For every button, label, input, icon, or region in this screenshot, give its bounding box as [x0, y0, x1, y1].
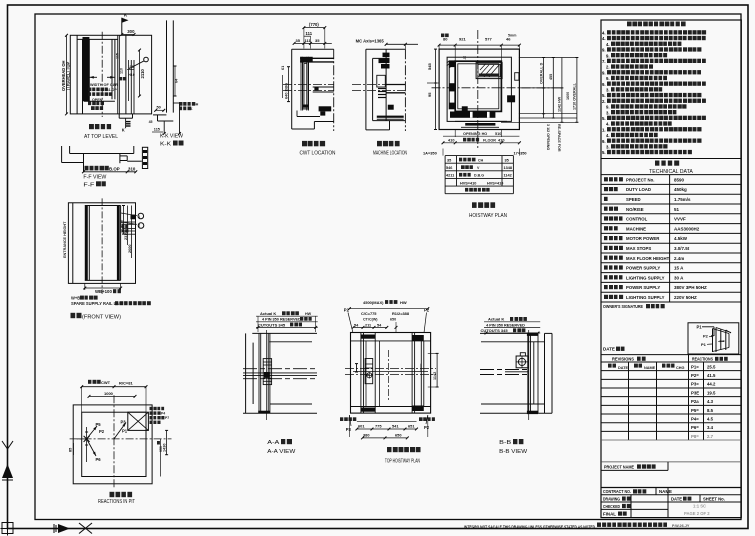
- dim ladder right of door: [131, 215, 136, 220]
- K-K bottom step: [153, 114, 166, 116]
- svg-text:C/C=775: C/C=775: [361, 311, 377, 316]
- svg-text:35: 35: [315, 38, 320, 43]
- svg-text:4.: 4.: [606, 133, 610, 138]
- svg-text:HVS=410: HVS=410: [460, 181, 476, 185]
- svg-text:SHEET No.: SHEET No.: [703, 496, 725, 501]
- svg-text:44.2: 44.2: [707, 382, 716, 387]
- svg-text:4.: 4.: [606, 42, 610, 47]
- fold mark: solid arrow on bottom border: [58, 524, 70, 533]
- svg-text:CHECKED: CHECKED: [603, 504, 620, 509]
- caption FRONT VIEW: [71, 313, 82, 318]
- view CWT LOCATION: [291, 49, 293, 129]
- svg-text:9.: 9.: [602, 48, 606, 53]
- machine inner frame: [372, 58, 374, 120]
- left dims hoistway: [435, 49, 437, 129]
- THP right guide: [411, 333, 413, 414]
- svg-text:OVERALL D: OVERALL D: [539, 62, 543, 84]
- title block outline: [601, 20, 741, 518]
- svg-text:P4: P4: [161, 412, 165, 416]
- B-B rails: [480, 369, 528, 371]
- bottom blocks cwt: [319, 106, 332, 111]
- view F-F: door sill section: [61, 146, 63, 163]
- svg-text:7.: 7.: [602, 59, 606, 64]
- THP left guide: [360, 333, 362, 414]
- svg-text:F-F: F-F: [83, 182, 95, 188]
- svg-text:P2=: P2=: [691, 373, 699, 378]
- svg-text:3 1/2 OPENING: 3 1/2 OPENING: [546, 124, 550, 150]
- svg-text:4.3: 4.3: [707, 399, 714, 404]
- car centreline: [101, 32, 103, 117]
- svg-text:9.: 9.: [606, 105, 610, 110]
- svg-text:A-A: A-A: [267, 440, 279, 446]
- right note block: [179, 102, 195, 106]
- svg-text:MACHINE: MACHINE: [626, 226, 646, 231]
- svg-text:8.5: 8.5: [707, 408, 714, 413]
- svg-text:A-A VIEW: A-A VIEW: [267, 449, 296, 455]
- technical data table: [601, 174, 741, 176]
- svg-text:(770): (770): [309, 22, 319, 27]
- svg-text:OH: OH: [193, 103, 199, 107]
- svg-text:P2: P2: [99, 429, 105, 434]
- svg-text:651: 651: [408, 423, 415, 428]
- beams: [386, 84, 405, 86]
- A-A wall: [245, 333, 247, 413]
- svg-text:CUTOUTS 345: CUTOUTS 345: [481, 328, 509, 333]
- svg-text:25.5: 25.5: [707, 364, 716, 369]
- svg-text:RE-SPACE FOR: RE-SPACE FOR: [557, 124, 561, 152]
- svg-text:95: 95: [427, 92, 432, 97]
- svg-text:OPENING HO: OPENING HO: [463, 132, 487, 136]
- svg-text:1:1 SC: 1:1 SC: [693, 504, 706, 509]
- svg-text:P1: P1: [122, 429, 128, 434]
- reaction sketch box: [688, 323, 739, 354]
- svg-text:NAME: NAME: [644, 366, 656, 370]
- cwt rail and frame: [300, 57, 302, 111]
- svg-text:211: 211: [365, 323, 371, 327]
- svg-text:2110: 2110: [140, 69, 145, 79]
- svg-text:P7: P7: [165, 416, 169, 420]
- svg-text:115: 115: [154, 128, 160, 132]
- svg-text:AT TOP LEVEL: AT TOP LEVEL: [84, 134, 119, 140]
- notes heading: [627, 22, 686, 27]
- svg-text:650: 650: [395, 433, 402, 438]
- svg-text:MAX STOPS: MAX STOPS: [626, 246, 651, 251]
- svg-text:45: 45: [149, 120, 153, 124]
- centerline: [101, 198, 103, 294]
- svg-text:35: 35: [505, 159, 509, 163]
- data row PROJECT No.: [604, 177, 623, 181]
- svg-text:4.: 4.: [602, 36, 606, 41]
- svg-text:OPEN: OPEN: [92, 98, 103, 102]
- svg-text:455: 455: [549, 74, 553, 80]
- svg-text:P3=: P3=: [691, 382, 699, 387]
- svg-text:R1/2=388: R1/2=388: [392, 311, 410, 316]
- svg-text:PROJECT NAME: PROJECT NAME: [604, 464, 634, 469]
- svg-text:41.5: 41.5: [707, 373, 716, 378]
- svg-text:MAX FLOOR HEIGHT: MAX FLOOR HEIGHT: [626, 256, 670, 261]
- svg-text:B1.OP: B1.OP: [106, 88, 117, 92]
- svg-text:2310: 2310: [124, 232, 128, 240]
- svg-text:P3E: P3E: [691, 390, 699, 395]
- svg-text:P2: P2: [424, 425, 430, 430]
- svg-text:WB+100: WB+100: [95, 289, 112, 294]
- svg-text:SPEED: SPEED: [626, 197, 641, 202]
- svg-text:35: 35: [447, 159, 451, 163]
- svg-text:9.: 9.: [602, 70, 606, 75]
- svg-text:1000: 1000: [104, 391, 114, 396]
- svg-text:ENTRANCE HEIGHT: ENTRANCE HEIGHT: [63, 221, 67, 258]
- flag K bottom: [125, 118, 127, 128]
- svg-text:MACHINE LOCATION: MACHINE LOCATION: [373, 151, 407, 157]
- svg-text:1A=350: 1A=350: [423, 151, 437, 156]
- svg-text:601: 601: [358, 423, 365, 428]
- svg-text:CUTOUTS 345: CUTOUTS 345: [258, 322, 286, 327]
- view HOISTWAY PLAN: [439, 49, 519, 129]
- caption REACTIONS IN PIT: [110, 492, 133, 497]
- svg-text:CONTROL: CONTROL: [626, 217, 648, 222]
- circled marks: [138, 213, 144, 219]
- svg-text:921: 921: [459, 37, 466, 42]
- svg-text:4211: 4211: [446, 174, 454, 178]
- data row MAX FLOOR HEIGHT: [604, 256, 623, 260]
- counterweight column left: [449, 61, 455, 109]
- THP bottom dims: [348, 415, 350, 437]
- left small dim 85: [77, 438, 87, 440]
- hatched jamb block: [142, 147, 147, 168]
- svg-text:CH: CH: [478, 159, 484, 163]
- svg-text:P8=: P8=: [691, 434, 699, 439]
- svg-text:K-K: K-K: [160, 142, 171, 148]
- data row DUTY LOAD: [604, 187, 618, 191]
- data row POWER SUPPLY: [604, 265, 623, 269]
- svg-text:1142: 1142: [504, 174, 512, 178]
- svg-text:35: 35: [296, 38, 301, 43]
- svg-text:2.7: 2.7: [707, 434, 714, 439]
- svg-text:4500(MAX): 4500(MAX): [363, 300, 384, 305]
- svg-text:8590: 8590: [674, 177, 685, 182]
- svg-text:DATE: DATE: [603, 347, 615, 352]
- svg-text:450kg: 450kg: [674, 187, 687, 192]
- svg-text:FLOOR: FLOOR: [483, 139, 496, 143]
- svg-text:110: 110: [128, 65, 134, 69]
- svg-text:W+B: W+B: [71, 295, 80, 300]
- centerlines: [113, 395, 115, 488]
- svg-text:WIDTH OF CAR: WIDTH OF CAR: [90, 83, 118, 87]
- svg-text:DATE: DATE: [671, 496, 682, 501]
- revisions table columns: [688, 355, 690, 440]
- F-F labels: [85, 166, 109, 171]
- svg-text:220V 50HZ: 220V 50HZ: [674, 295, 697, 300]
- data row MACHINE: [604, 226, 618, 230]
- technical data heading: [655, 161, 679, 166]
- svg-text:P3: P3: [346, 427, 352, 432]
- svg-text:5.: 5.: [602, 150, 606, 155]
- svg-text:P2: P2: [344, 308, 350, 313]
- svg-text:PROJECT No.: PROJECT No.: [626, 177, 654, 182]
- hoistway data table: [445, 155, 513, 157]
- left point with arrows: [84, 436, 90, 442]
- svg-text:410: 410: [448, 138, 455, 143]
- top beams double lines: [300, 57, 334, 59]
- svg-text:HVS=410: HVS=410: [487, 181, 503, 185]
- svg-text:4 PIN 350 RESERVED: 4 PIN 350 RESERVED: [486, 323, 525, 327]
- svg-text:P2a: P2a: [691, 399, 699, 404]
- THP centre lines: [345, 368, 436, 370]
- svg-text:LIGHTING SUPPLY: LIGHTING SUPPLY: [626, 295, 665, 300]
- svg-text:3.: 3.: [606, 88, 610, 93]
- svg-text:9.: 9.: [606, 76, 610, 81]
- svg-text:HW: HW: [305, 312, 312, 316]
- svg-text:CWT LOCATION: CWT LOCATION: [300, 151, 336, 157]
- svg-text:17=350: 17=350: [514, 151, 527, 156]
- svg-text:1710 OVERALL: 1710 OVERALL: [573, 82, 577, 110]
- svg-text:NAME: NAME: [659, 489, 672, 494]
- svg-text:577: 577: [485, 37, 492, 42]
- svg-text:VVVF: VVVF: [674, 217, 686, 222]
- car door dark bar: [450, 112, 495, 118]
- door right edge: [117, 206, 120, 281]
- svg-text:K-K VIEW: K-K VIEW: [160, 134, 183, 140]
- svg-text:PAGE 2 OF 2: PAGE 2 OF 2: [684, 511, 710, 516]
- svg-text:2.: 2.: [602, 99, 606, 104]
- svg-text:AAS3000H2: AAS3000H2: [674, 226, 700, 231]
- svg-text:1: 1: [138, 215, 140, 219]
- right dim pit: [160, 439, 162, 477]
- pulley circle: [144, 57, 149, 62]
- svg-text:P4=: P4=: [691, 416, 699, 421]
- svg-text:9.: 9.: [602, 82, 606, 87]
- svg-text:650: 650: [390, 318, 396, 322]
- fold mark: X on bottom border: [79, 523, 92, 534]
- svg-text:P1: P1: [701, 342, 707, 347]
- svg-text:3.4: 3.4: [707, 425, 714, 430]
- step below: [118, 114, 120, 118]
- car roof dark panel: [83, 37, 90, 101]
- data row LIGHTING SUPPLY: [604, 275, 623, 279]
- svg-text:1430: 1430: [163, 444, 167, 452]
- section flag K top: [121, 18, 123, 36]
- drawn/checked/final rows: [601, 501, 741, 503]
- svg-text:4.: 4.: [606, 122, 610, 127]
- corner hatch top-left: [447, 61, 452, 66]
- car walls: [455, 61, 501, 111]
- svg-text:REACTIONS IN PIT: REACTIONS IN PIT: [98, 499, 135, 505]
- data row LIGHTING SUPPLY: [604, 295, 623, 299]
- svg-text:3.0/7.5t: 3.0/7.5t: [674, 246, 690, 251]
- A-A rails: [243, 368, 317, 370]
- svg-text:DRAWING: DRAWING: [603, 496, 620, 501]
- project name bar: [601, 461, 741, 463]
- svg-text:380V 3PH 50HZ: 380V 3PH 50HZ: [674, 285, 707, 290]
- svg-text:R/C=81: R/C=81: [119, 381, 133, 386]
- THP main rect: [351, 333, 431, 414]
- svg-text:1142 HW: 1142 HW: [558, 96, 562, 112]
- view MACHINE LOCATION: [365, 49, 367, 130]
- svg-text:1142: 1142: [433, 372, 437, 380]
- right shaft lines: [125, 35, 127, 114]
- svg-text:950: 950: [159, 446, 163, 452]
- caption MACHINE LOCATION: [377, 141, 400, 146]
- svg-text:3.: 3.: [606, 110, 610, 115]
- svg-text:19.5: 19.5: [707, 390, 716, 395]
- THP right dim: [436, 353, 438, 387]
- svg-text:110: 110: [120, 68, 124, 74]
- svg-text:1348: 1348: [504, 166, 512, 170]
- svg-text:B-B VIEW: B-B VIEW: [499, 449, 528, 455]
- svg-text:CONTRACT NO.: CONTRACT NO.: [603, 489, 631, 494]
- svg-text:30 A: 30 A: [674, 275, 684, 280]
- svg-text:510: 510: [495, 132, 501, 136]
- data row CONTROL: [604, 216, 623, 220]
- svg-text:D.B.G: D.B.G: [474, 174, 484, 178]
- 3d box sketch: [712, 329, 714, 353]
- view REACTIONS IN PIT: pit plan: [73, 405, 152, 484]
- svg-text:P.W.26.JY: P.W.26.JY: [672, 524, 690, 528]
- svg-text:4.5kW: 4.5kW: [674, 236, 688, 241]
- subheader texts: [608, 364, 616, 368]
- svg-text:NO/RISE: NO/RISE: [626, 207, 644, 212]
- data row MAX STOPS: [604, 246, 623, 250]
- svg-text:3.: 3.: [606, 145, 610, 150]
- svg-text:4.: 4.: [602, 31, 606, 36]
- svg-text:REVISIONS: REVISIONS: [612, 357, 634, 362]
- svg-text:51: 51: [674, 207, 680, 212]
- data row POWER SUPPLY: [604, 285, 623, 289]
- svg-text:REACTIONS: REACTIONS: [692, 357, 713, 362]
- data row SPEED: [604, 197, 608, 201]
- svg-text:300: 300: [127, 29, 135, 34]
- svg-text:LIGHTING SUPPLY: LIGHTING SUPPLY: [626, 275, 665, 280]
- B-B wall: [480, 332, 538, 334]
- svg-text:B.OP: B.OP: [109, 166, 120, 171]
- svg-text:HW: HW: [400, 300, 407, 305]
- svg-text:P5: P5: [96, 422, 102, 427]
- svg-text:2: 2: [138, 223, 140, 227]
- svg-text:K: K: [122, 128, 125, 133]
- svg-text:2600: 2600: [128, 245, 132, 253]
- svg-text:5.: 5.: [602, 93, 606, 98]
- svg-text:111: 111: [306, 31, 313, 36]
- view FRONT: landing door elevation: [68, 203, 135, 284]
- left dim cwt: [288, 67, 290, 102]
- fold mark: corner square with cross bottom-left: [2, 523, 13, 534]
- svg-text:9.: 9.: [602, 139, 606, 144]
- B-B crossed box: [516, 356, 528, 368]
- svg-text:INTEGRO NOT SACALE THIS DRAWIN: INTEGRO NOT SACALE THIS DRAWING,UNLESS O…: [464, 524, 595, 529]
- svg-text:P6: P6: [96, 457, 102, 462]
- svg-text:DATE: DATE: [618, 366, 629, 370]
- arrows at car centre: [114, 423, 126, 439]
- rail bracket arm: [313, 86, 334, 88]
- svg-text:310: 310: [128, 167, 136, 172]
- svg-text:TOP HOISTWAY PLAN: TOP HOISTWAY PLAN: [385, 459, 420, 465]
- svg-text:POWER SUPPLY: POWER SUPPLY: [626, 266, 660, 271]
- machine box hatched: [476, 63, 502, 79]
- svg-text:(FRONT VIEW): (FRONT VIEW): [82, 315, 121, 321]
- svg-text:15 A: 15 A: [674, 266, 684, 271]
- svg-text:9.: 9.: [606, 53, 610, 58]
- bottom blocks machine: [388, 105, 394, 110]
- svg-text:4.5: 4.5: [707, 416, 714, 421]
- svg-text:P6=: P6=: [691, 425, 699, 430]
- revisions / reactions headers: [601, 354, 741, 356]
- machine parts: [385, 49, 387, 120]
- fold mark: solid triangle on left border: [2, 464, 13, 478]
- caption HOISTWAY PLAN: [472, 202, 495, 208]
- svg-text:HOISTWAY PLAN: HOISTWAY PLAN: [469, 213, 507, 219]
- landing door bars: [465, 123, 495, 126]
- svg-text:P1: P1: [697, 325, 703, 330]
- svg-text:4 PIN 350 RESERVED: 4 PIN 350 RESERVED: [262, 318, 301, 322]
- fold mark: Y on left border: [2, 441, 8, 449]
- svg-text:1|: 1|: [463, 56, 466, 60]
- svg-text:Actual K: Actual K: [260, 311, 276, 316]
- svg-text:POWER SUPPLY: POWER SUPPLY: [626, 285, 660, 290]
- svg-text:5.: 5.: [602, 116, 606, 121]
- svg-text:P2: P2: [424, 308, 430, 313]
- data row NO/RISE: [604, 207, 618, 211]
- svg-text:545: 545: [427, 63, 432, 70]
- svg-text:F-F VIEW: F-F VIEW: [83, 175, 106, 181]
- svg-text:775: 775: [375, 423, 382, 428]
- svg-text:1600: 1600: [566, 92, 570, 100]
- svg-text:B-B: B-B: [499, 440, 511, 446]
- A-A guide assembly: [258, 333, 260, 413]
- view AT TOP LEVEL: hoistway top section: [70, 35, 151, 114]
- svg-text:546: 546: [446, 166, 452, 170]
- caption AT TOP LEVEL: [89, 124, 111, 129]
- svg-text:1.75m/s: 1.75m/s: [674, 197, 691, 202]
- caption TOP HOISTWAY PLAN: [387, 447, 421, 452]
- B-B guide assembly: [527, 333, 529, 415]
- top dim lines pit: [82, 386, 146, 388]
- small box bottom-left in car: [462, 106, 468, 111]
- svg-text:DUTY LOAD: DUTY LOAD: [626, 187, 651, 192]
- data row MOTOR POWER: [604, 236, 623, 240]
- svg-text:Actual K: Actual K: [488, 317, 504, 322]
- contract row: [601, 487, 741, 489]
- svg-text:H10: H10: [128, 73, 135, 77]
- svg-text:P5=: P5=: [691, 408, 699, 413]
- svg-text:P1=: P1=: [691, 364, 699, 369]
- svg-text:CWT: CWT: [101, 380, 111, 385]
- svg-text:640 DBG: 640 DBG: [283, 83, 288, 99]
- svg-text:P3: P3: [121, 420, 127, 425]
- bottom width dim: [85, 287, 121, 289]
- svg-text:MC Axis=1365: MC Axis=1365: [356, 38, 385, 43]
- svg-text:OWNER'S SIGNATURE: OWNER'S SIGNATURE: [603, 304, 643, 309]
- svg-text:FINAL: FINAL: [603, 511, 616, 516]
- svg-text:5mm: 5mm: [508, 34, 516, 38]
- right dim stack: [123, 206, 125, 235]
- door open arrows: [90, 76, 98, 78]
- svg-text:CHG: CHG: [676, 366, 684, 370]
- cwt box with X: [128, 412, 149, 430]
- svg-text:P2: P2: [703, 334, 709, 339]
- caption CWT LOCATION: [302, 141, 325, 146]
- svg-text:2.: 2.: [606, 65, 610, 70]
- svg-text:50: 50: [157, 106, 161, 110]
- bottom dims hoistway: [454, 130, 456, 138]
- svg-text:MOTOR POWER: MOTOR POWER: [626, 236, 660, 241]
- svg-text:410: 410: [498, 138, 505, 143]
- labels beside cwt box: [150, 407, 165, 410]
- svg-text:1.: 1.: [602, 127, 606, 132]
- svg-text:CT/C(W): CT/C(W): [363, 318, 378, 322]
- view K-K: wall section: [166, 20, 168, 112]
- side bracket marks: [356, 364, 358, 372]
- svg-text:2.4m: 2.4m: [674, 256, 684, 261]
